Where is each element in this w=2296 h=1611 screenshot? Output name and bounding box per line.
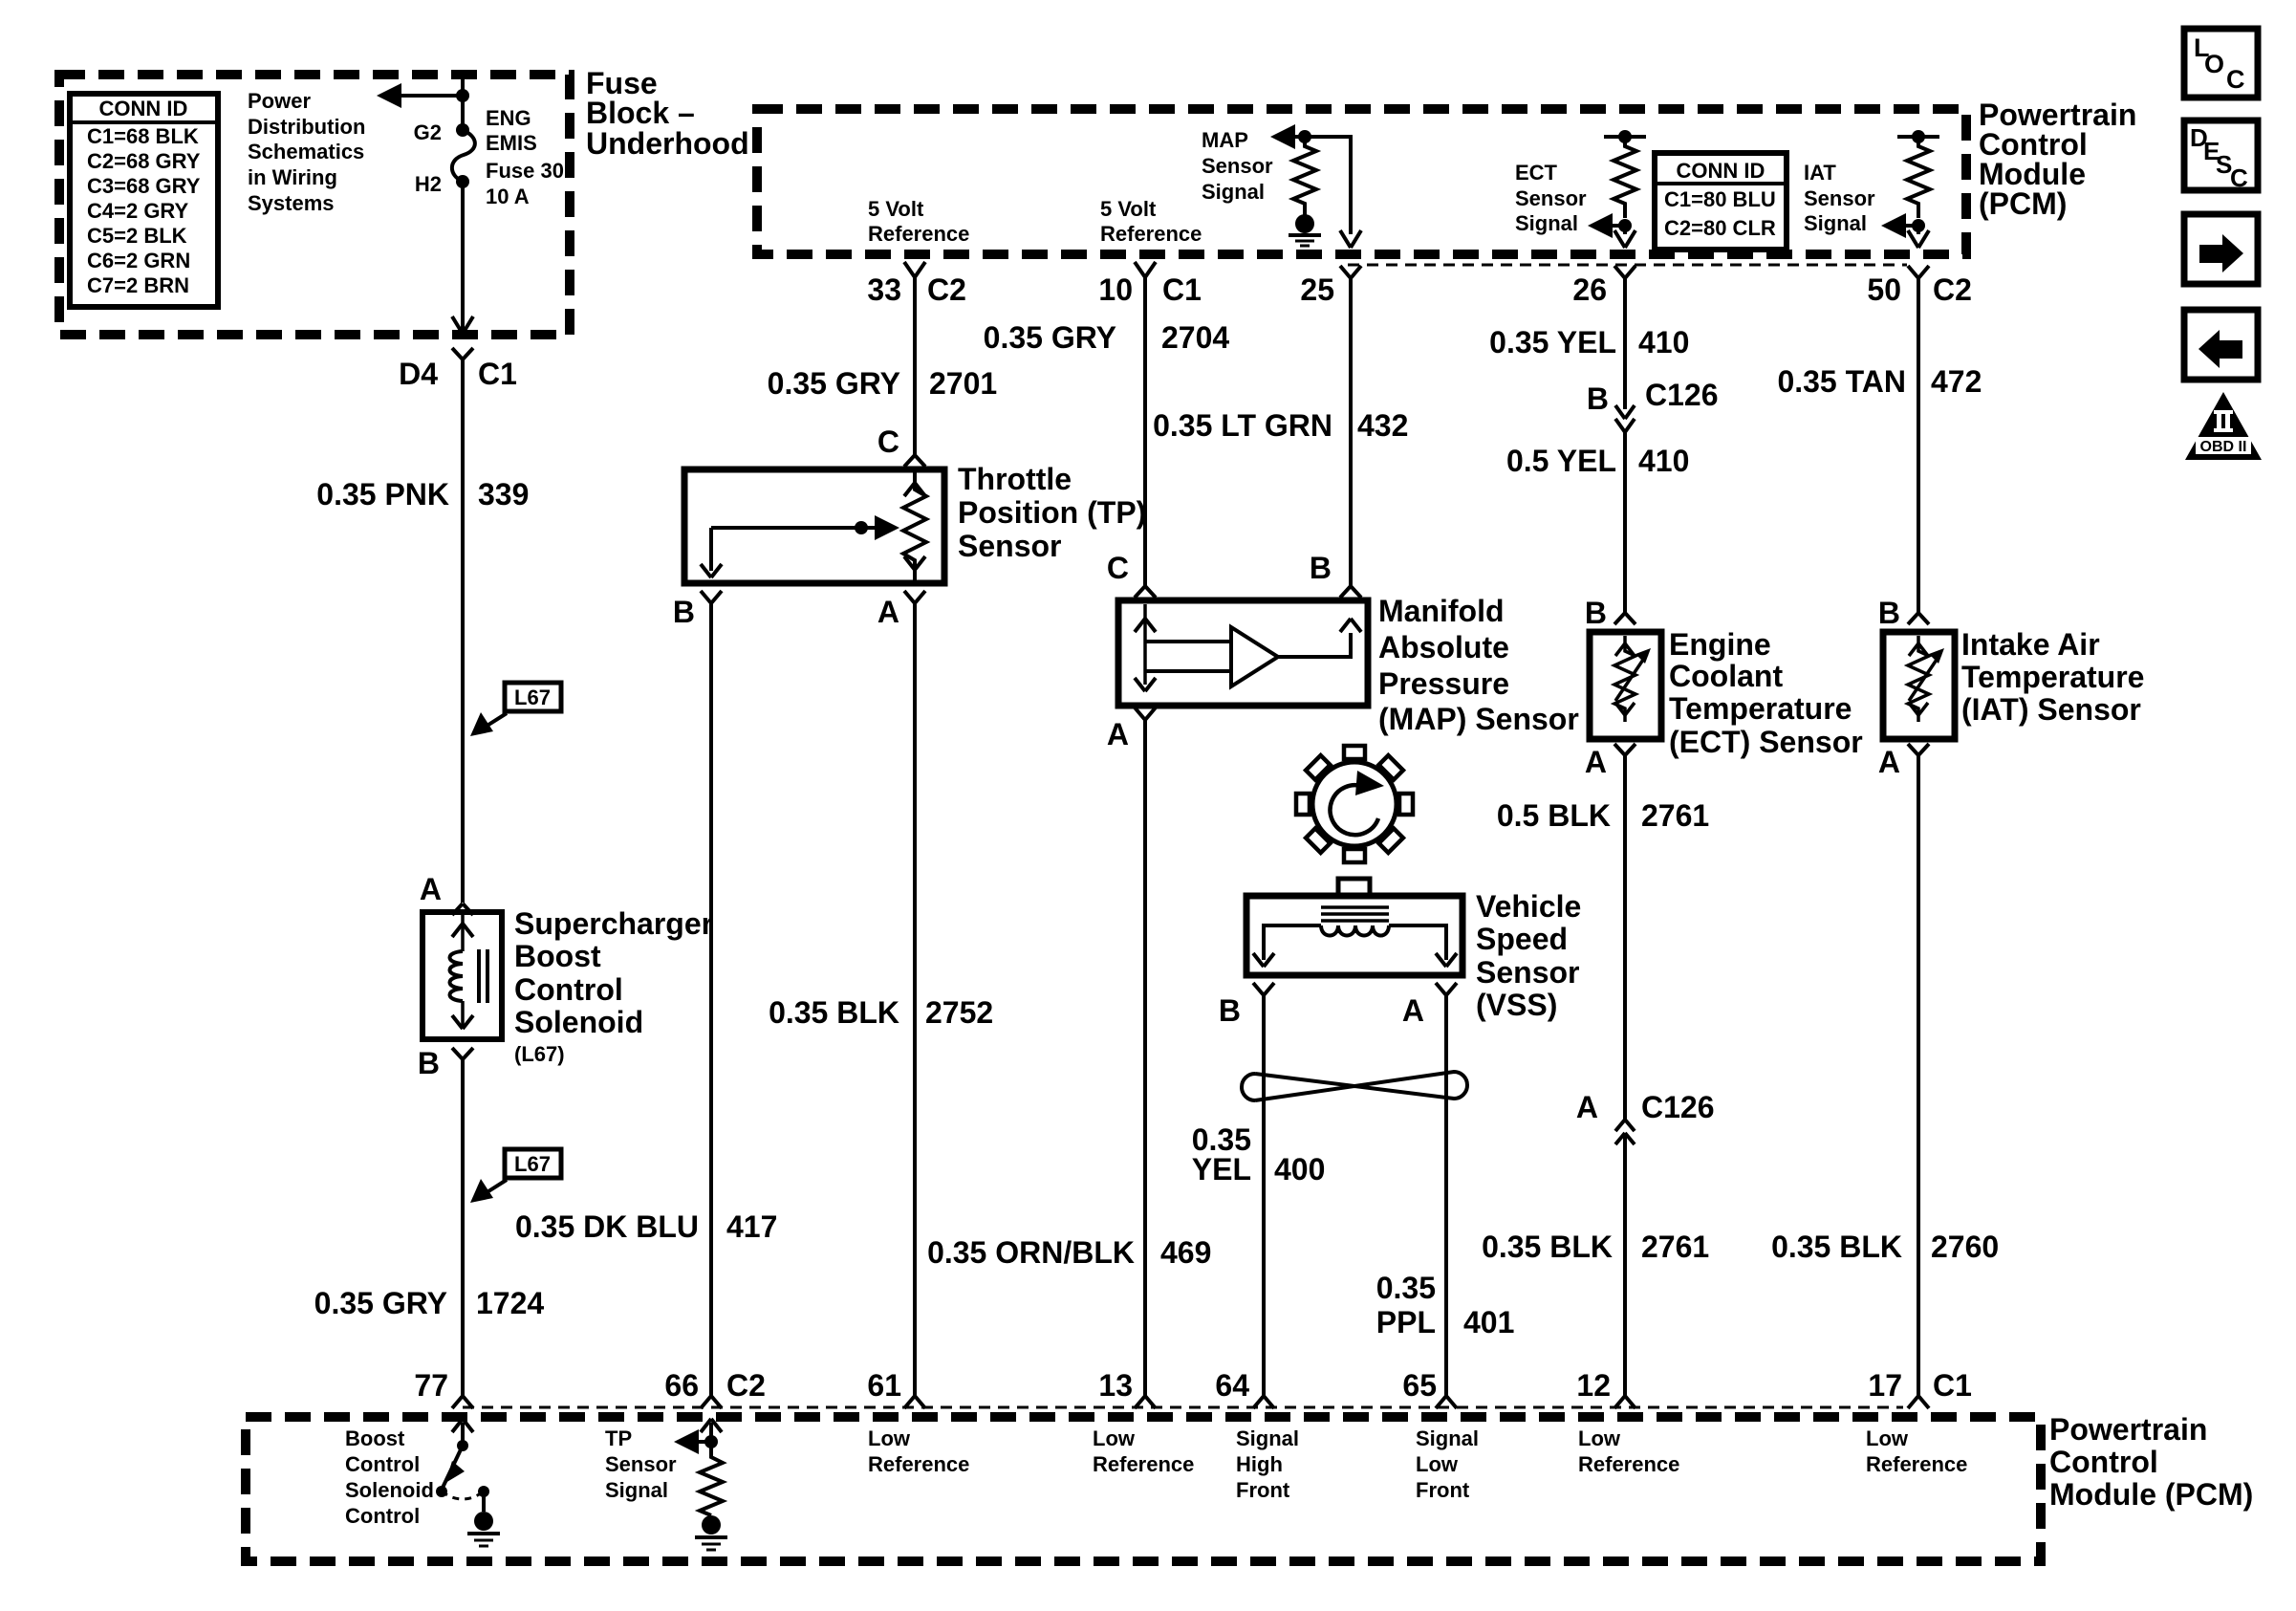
label: TP Sensor Signal: [605, 1426, 677, 1502]
svg-text:0.35 BLK: 0.35 BLK: [1771, 1230, 1902, 1264]
PCM CONN ID table: [1655, 153, 1787, 250]
svg-text:PPL: PPL: [1376, 1305, 1436, 1339]
label: 0.35 GRY 2701: [768, 366, 998, 401]
svg-text:2704: 2704: [1161, 320, 1229, 355]
label: Supercharger Boost Control Solenoid (L67): [514, 906, 713, 1066]
net: IAT sensor signal label: [1804, 161, 1875, 235]
svg-text:Sensor: Sensor: [1804, 186, 1875, 210]
label: Powertrain Control Module (PCM) bottom right: [2049, 1412, 2253, 1512]
boost control solenoid driver switch: [436, 1419, 489, 1512]
svg-text:Position (TP): Position (TP): [958, 495, 1146, 530]
wire: TP B to PCM 66 (0.35 DK BLU 417): [709, 603, 713, 1396]
svg-text:66: 66: [664, 1368, 699, 1403]
svg-text:C: C: [877, 425, 899, 459]
icon: OBD II triangle: [2185, 392, 2262, 460]
ground: boost control driver: [467, 1512, 500, 1546]
svg-text:33: 33: [867, 272, 901, 307]
svg-text:0.35 ORN/BLK: 0.35 ORN/BLK: [927, 1235, 1135, 1270]
label: 0.35 PNK 339: [316, 477, 529, 512]
svg-text:17: 17: [1868, 1368, 1902, 1403]
wire: ECT A to C126 pin A (0.5 BLK 2761): [1623, 755, 1627, 1120]
svg-text:Coolant: Coolant: [1669, 659, 1783, 693]
fuse block CONN ID table: [70, 94, 218, 307]
resistor: ECT internal pull-up: [1614, 137, 1636, 218]
wire: VSS B to PCM 64 (0.35 YEL 400): [1262, 995, 1266, 1396]
svg-text:Solenoid: Solenoid: [514, 1005, 643, 1039]
svg-text:Control: Control: [345, 1504, 420, 1528]
svg-text:B: B: [1310, 551, 1332, 585]
svg-text:A: A: [1402, 993, 1424, 1028]
svg-text:C6=2 GRN: C6=2 GRN: [87, 249, 190, 272]
svg-text:C7=2 BRN: C7=2 BRN: [87, 273, 189, 297]
svg-text:CONN ID: CONN ID: [1677, 159, 1765, 183]
svg-text:(IAT) Sensor: (IAT) Sensor: [1961, 692, 2141, 727]
wire: 33 to TP sensor pin C (0.35 GRY 2701): [913, 277, 917, 455]
node: ECT signal junction: [1618, 219, 1632, 232]
svg-text:OBD II: OBD II: [2200, 439, 2247, 455]
svg-text:C3=68 GRY: C3=68 GRY: [87, 174, 201, 198]
label: 0.35 YEL 400: [1192, 1122, 1326, 1186]
wire: 10 to MAP sensor pin C (0.35 GRY 2704): [1143, 277, 1147, 586]
svg-text:Reference: Reference: [868, 222, 969, 246]
svg-text:C2=80 CLR: C2=80 CLR: [1664, 216, 1776, 240]
pin C TP sensor chevron: [904, 455, 925, 467]
pin A MAP sensor chevron: [1135, 708, 1156, 720]
svg-text:0.35 BLK: 0.35 BLK: [1482, 1230, 1613, 1264]
pin 65 connector chevron: [1436, 1396, 1457, 1408]
net: low reference (13): [1093, 1426, 1194, 1476]
pin C MAP sensor chevron: [1135, 586, 1156, 598]
svg-text:A: A: [1576, 1090, 1598, 1124]
svg-text:D4: D4: [399, 357, 438, 391]
label: 0.35 YEL 410: [1489, 325, 1689, 359]
svg-text:Block –: Block –: [586, 96, 695, 130]
net: signal low front (65): [1416, 1426, 1479, 1502]
svg-text:0.35 BLK: 0.35 BLK: [769, 995, 899, 1030]
svg-text:B: B: [1219, 993, 1241, 1028]
label: 0.35 ORN/BLK 469: [927, 1235, 1211, 1270]
svg-text:MAP: MAP: [1202, 128, 1248, 152]
pin B VSS chevron: [1253, 983, 1274, 995]
twisted pair symbol: [1242, 1072, 1467, 1100]
svg-text:2761: 2761: [1641, 798, 1709, 833]
svg-text:Reference: Reference: [868, 1452, 969, 1476]
powertrain control module bottom dashed box: [246, 1417, 2041, 1561]
svg-text:Low: Low: [1416, 1452, 1459, 1476]
svg-text:61: 61: [867, 1368, 901, 1403]
node: MAP pull-down junction: [1298, 130, 1311, 143]
pin 17 connector chevron: [1908, 1396, 1929, 1408]
thermistor: ECT sensor element: [1614, 636, 1651, 722]
wire: MAP A to PCM 13 (0.35 ORN/BLK 469): [1143, 720, 1147, 1396]
svg-text:12: 12: [1576, 1368, 1611, 1403]
svg-text:Speed: Speed: [1476, 922, 1568, 956]
throttle position sensor box: [684, 469, 944, 583]
svg-text:50: 50: [1867, 272, 1901, 307]
svg-text:1724: 1724: [476, 1286, 544, 1320]
svg-text:0.35 GRY: 0.35 GRY: [768, 366, 900, 401]
pin 33 connector chevron: [904, 262, 925, 277]
svg-text:C1=68 BLK: C1=68 BLK: [87, 124, 199, 148]
svg-text:Reference: Reference: [1100, 222, 1202, 246]
svg-text:ENG: ENG: [486, 106, 531, 130]
wire: 0.35 GRY 1724 segment: [461, 1059, 465, 1396]
fuse F30 ENG EMIS element: [452, 130, 475, 182]
svg-text:Sensor: Sensor: [958, 529, 1061, 563]
svg-text:Temperature: Temperature: [1669, 691, 1852, 726]
svg-text:Low: Low: [1866, 1426, 1909, 1450]
label: 0.35 PPL 401: [1376, 1271, 1515, 1339]
wire: MAP signal internal with left arrow: [1270, 124, 1361, 248]
svg-text:469: 469: [1160, 1235, 1211, 1270]
svg-text:400: 400: [1274, 1152, 1325, 1186]
powertrain control module top dashed box: [757, 109, 1966, 254]
svg-text:Absolute: Absolute: [1378, 630, 1509, 664]
pin A IAT sensor chevron: [1908, 744, 1929, 755]
wire: 50 to IAT pin B (0.35 TAN 472): [1917, 278, 1920, 613]
svg-text:Reference: Reference: [1866, 1452, 1967, 1476]
tag L67 upper with arrow: [470, 683, 561, 736]
svg-text:O: O: [2204, 50, 2224, 78]
pin 61 connector chevron: [904, 1396, 925, 1408]
svg-text:A: A: [1878, 745, 1900, 779]
svg-text:A: A: [1107, 717, 1129, 751]
svg-text:(MAP) Sensor: (MAP) Sensor: [1378, 702, 1579, 736]
icon: DESC box: [2184, 120, 2258, 192]
svg-text:C1=80 BLU: C1=80 BLU: [1664, 187, 1776, 211]
svg-text:Power: Power: [248, 89, 311, 113]
svg-text:0.5 BLK: 0.5 BLK: [1497, 798, 1611, 833]
svg-text:C: C: [2230, 163, 2248, 192]
wire: 25 to MAP sensor pin B (0.35 LT GRN 432): [1349, 278, 1353, 586]
svg-text:C4=2 GRY: C4=2 GRY: [87, 199, 189, 223]
svg-text:5 Volt: 5 Volt: [1100, 197, 1157, 221]
svg-text:C5=2 BLK: C5=2 BLK: [87, 224, 187, 248]
ground: MAP internal: [1289, 212, 1321, 246]
svg-text:(ECT) Sensor: (ECT) Sensor: [1669, 725, 1863, 759]
svg-text:C1: C1: [1162, 272, 1202, 307]
svg-text:Reference: Reference: [1093, 1452, 1194, 1476]
svg-text:0.35 DK BLU: 0.35 DK BLU: [515, 1209, 699, 1244]
svg-text:A: A: [420, 872, 442, 906]
svg-text:C126: C126: [1645, 378, 1719, 412]
svg-text:L67: L67: [514, 686, 551, 709]
solenoid coil element: [450, 912, 488, 1029]
VSS pickup coil winding: [1321, 925, 1389, 936]
net: low reference (17): [1866, 1426, 1967, 1476]
svg-text:10: 10: [1098, 272, 1133, 307]
VSS mounting tab: [1338, 879, 1370, 896]
wire: arrow to power distribution schematics: [377, 83, 463, 108]
resistor: MAP internal: [1293, 137, 1316, 212]
svg-text:417: 417: [726, 1209, 777, 1244]
svg-text:C: C: [1107, 551, 1129, 585]
svg-text:B: B: [1878, 596, 1900, 630]
pin B TP sensor chevron: [701, 591, 722, 603]
net: signal high front (64): [1236, 1426, 1299, 1502]
label: Manifold Absolute Pressure (MAP) Sensor: [1378, 594, 1579, 736]
svg-text:C2: C2: [927, 272, 966, 307]
svg-text:410: 410: [1638, 325, 1689, 359]
svg-text:Sensor: Sensor: [1476, 955, 1579, 990]
svg-text:0.35: 0.35: [1376, 1271, 1436, 1305]
svg-text:0.35 TAN: 0.35 TAN: [1777, 364, 1906, 399]
svg-text:Control: Control: [2049, 1445, 2158, 1479]
svg-text:TP: TP: [605, 1426, 632, 1450]
net: 5 volt reference (TP): [868, 197, 969, 246]
svg-text:in Wiring: in Wiring: [248, 165, 337, 189]
TP sensor signal input with left arrow: [674, 1419, 722, 1454]
fuse F30 ENG EMIS terminal H2: [456, 175, 469, 188]
pin B IAT sensor chevron: [1908, 613, 1929, 624]
connector C126 lower halves: [1615, 1120, 1635, 1144]
svg-text:Manifold: Manifold: [1378, 594, 1505, 628]
svg-text:Sensor: Sensor: [605, 1452, 677, 1476]
svg-text:432: 432: [1357, 408, 1408, 443]
svg-text:B: B: [1585, 596, 1607, 630]
wire: C126 to ECT pin B (0.5 YEL 410): [1623, 432, 1627, 613]
pin 13 connector chevron: [1135, 1396, 1156, 1408]
svg-text:Sensor: Sensor: [1202, 154, 1273, 178]
svg-text:L67: L67: [514, 1152, 551, 1176]
svg-text:Front: Front: [1236, 1478, 1290, 1502]
svg-text:25: 25: [1300, 272, 1334, 307]
node: power distribution tap junction: [456, 89, 469, 102]
fuse F30 ENG EMIS terminal G2: [456, 123, 469, 137]
node: IAT signal junction: [1912, 219, 1925, 232]
svg-text:Distribution: Distribution: [248, 115, 365, 139]
svg-text:B: B: [673, 595, 695, 629]
svg-text:64: 64: [1215, 1368, 1249, 1403]
svg-text:H2: H2: [415, 172, 442, 196]
wire: 0.35 PNK 339 segment: [461, 359, 465, 903]
svg-text:Systems: Systems: [248, 191, 335, 215]
tag L67 lower with arrow: [470, 1149, 561, 1203]
pin B ECT sensor chevron: [1614, 613, 1635, 624]
label: Fuse Block - Underhood: [586, 66, 749, 161]
label: Vehicle Speed Sensor (VSS): [1476, 889, 1581, 1022]
label: Boost Control Solenoid Control: [345, 1426, 434, 1528]
svg-text:C: C: [2226, 65, 2245, 94]
pin 12 connector chevron: [1614, 1396, 1635, 1408]
svg-text:77: 77: [414, 1368, 448, 1403]
svg-text:Underhood: Underhood: [586, 126, 749, 161]
ground: TP signal internal: [695, 1515, 727, 1550]
svg-text:26: 26: [1572, 272, 1607, 307]
svg-text:Low: Low: [868, 1426, 911, 1450]
pin A TP sensor chevron: [904, 591, 925, 603]
label: 0.35 BLK 2761: [1482, 1230, 1709, 1264]
svg-text:Control: Control: [345, 1452, 420, 1476]
VSS reluctor gear symbol: [1296, 746, 1413, 862]
svg-text:Throttle: Throttle: [958, 462, 1072, 496]
svg-text:Solenoid: Solenoid: [345, 1478, 434, 1502]
svg-text:0.35 GRY: 0.35 GRY: [314, 1286, 447, 1320]
wire: 26 to C126 pin B (0.35 YEL 410): [1623, 278, 1627, 409]
svg-text:5 Volt: 5 Volt: [868, 197, 924, 221]
icon: forward arrow box: [2184, 214, 2258, 284]
svg-text:Signal: Signal: [1515, 211, 1578, 235]
pin 25 connector chevron: [1340, 266, 1361, 278]
svg-text:339: 339: [478, 477, 529, 512]
svg-text:Signal: Signal: [1236, 1426, 1299, 1450]
wire: TP A to PCM 61 (0.35 BLK 2752): [913, 603, 917, 1396]
wire: PCM bottom harness thin dashed edge: [463, 1406, 1903, 1409]
label: Intake Air Temperature (IAT) Sensor: [1961, 627, 2144, 727]
wire: VSS A to PCM 65 (0.35 PPL 401): [1444, 995, 1448, 1396]
svg-text:2752: 2752: [925, 995, 993, 1030]
svg-text:A: A: [877, 595, 899, 629]
svg-text:C2: C2: [726, 1368, 766, 1403]
wire: IAT internal pull-up rail stub: [1897, 135, 1939, 139]
svg-text:(L67): (L67): [514, 1042, 565, 1066]
svg-text:B: B: [1587, 381, 1609, 416]
net: low reference (12): [1578, 1426, 1679, 1476]
label: 0.35 BLK 2752: [769, 995, 993, 1030]
svg-text:Signal: Signal: [1804, 211, 1867, 235]
svg-text:Reference: Reference: [1578, 1452, 1679, 1476]
svg-text:0.5 YEL: 0.5 YEL: [1506, 444, 1616, 478]
resistor: TP signal internal: [700, 1450, 723, 1515]
svg-text:C1: C1: [1933, 1368, 1972, 1403]
pin 50 connector chevron: [1908, 266, 1929, 278]
svg-text:65: 65: [1402, 1368, 1437, 1403]
engine coolant temperature sensor box: [1590, 632, 1661, 739]
vehicle speed sensor box: [1246, 896, 1462, 975]
svg-text:Boost: Boost: [514, 939, 601, 973]
svg-text:472: 472: [1931, 364, 1982, 399]
wire: fuse feed from top edge: [461, 76, 465, 130]
svg-text:Supercharger: Supercharger: [514, 906, 713, 941]
icon: LOC box: [2184, 29, 2258, 98]
svg-text:0.35 LT GRN: 0.35 LT GRN: [1153, 408, 1332, 443]
label: 0.5 YEL 410: [1506, 444, 1689, 478]
svg-text:0.35 GRY: 0.35 GRY: [984, 320, 1116, 355]
svg-text:A: A: [1585, 745, 1607, 779]
pin 26 connector chevron: [1614, 266, 1635, 278]
svg-text:Boost: Boost: [345, 1426, 405, 1450]
label: 0.35 LT GRN 432: [1153, 408, 1408, 443]
svg-text:Control: Control: [514, 972, 623, 1007]
svg-text:Powertrain: Powertrain: [2049, 1412, 2207, 1447]
svg-text:Front: Front: [1416, 1478, 1470, 1502]
svg-text:0.35 YEL: 0.35 YEL: [1489, 325, 1616, 359]
svg-text:High: High: [1236, 1452, 1283, 1476]
net: low reference (61): [868, 1426, 969, 1476]
label: 0.35 GRY 1724: [314, 1286, 545, 1320]
label: 0.35 BLK 2760: [1771, 1230, 1999, 1264]
svg-text:2760: 2760: [1931, 1230, 1999, 1264]
net: 5 volt reference (MAP): [1100, 197, 1202, 246]
svg-text:Signal: Signal: [1416, 1426, 1479, 1450]
svg-text:(VSS): (VSS): [1476, 988, 1557, 1022]
svg-text:Vehicle: Vehicle: [1476, 889, 1581, 924]
pin 66 connector chevron: [701, 1396, 722, 1408]
VSS coil leads with arrows: [1253, 925, 1457, 967]
svg-text:C2=68 GRY: C2=68 GRY: [87, 149, 201, 173]
wire: IAT A to PCM 17 (0.35 BLK 2760): [1917, 755, 1920, 1396]
svg-text:2701: 2701: [929, 366, 997, 401]
pin 64 connector chevron: [1253, 1396, 1274, 1408]
svg-text:B: B: [418, 1046, 440, 1080]
label: 0.35 DK BLU 417: [515, 1209, 777, 1244]
svg-text:IAT: IAT: [1804, 161, 1836, 185]
resistor: TP sensor element: [903, 472, 926, 580]
power distribution note: [248, 89, 365, 215]
svg-text:13: 13: [1098, 1368, 1133, 1403]
svg-text:EMIS: EMIS: [486, 131, 537, 155]
supercharger boost control solenoid box: [422, 912, 502, 1039]
wire: ECT internal pull-up rail stub: [1604, 135, 1646, 139]
VSS pickup coil core: [1321, 907, 1389, 921]
wire: IAT signal left arrow: [1881, 213, 1929, 248]
svg-text:Intake Air: Intake Air: [1961, 627, 2100, 662]
wire: PCM C2 harness thin dashed edge: [1348, 264, 1907, 267]
label: 0.35 GRY 2704: [984, 320, 1230, 355]
svg-text:Low: Low: [1093, 1426, 1136, 1450]
svg-text:C1: C1: [478, 357, 517, 391]
label: ENG EMIS Fuse 30 10 A: [486, 106, 564, 208]
pin 10 connector chevron: [1135, 262, 1156, 277]
node: ECT rail junction: [1618, 130, 1632, 143]
svg-text:Engine: Engine: [1669, 627, 1771, 662]
MAP sensor internal amplifier: [1135, 604, 1361, 691]
svg-text:410: 410: [1638, 444, 1689, 478]
svg-text:Sensor: Sensor: [1515, 186, 1587, 210]
label: 0.5 BLK 2761: [1497, 798, 1709, 833]
pin A VSS chevron: [1436, 983, 1457, 995]
svg-text:Low: Low: [1578, 1426, 1621, 1450]
svg-text:Fuse 30: Fuse 30: [486, 159, 564, 183]
svg-text:ECT: ECT: [1515, 161, 1558, 185]
svg-text:401: 401: [1463, 1305, 1514, 1339]
svg-text:C2: C2: [1933, 272, 1972, 307]
intake air temperature sensor box: [1883, 632, 1955, 739]
icon: back arrow box: [2184, 310, 2258, 380]
svg-text:C126: C126: [1641, 1090, 1715, 1124]
label: Engine Coolant Temperature (ECT) Sensor: [1669, 627, 1863, 759]
svg-text:YEL: YEL: [1192, 1152, 1251, 1186]
svg-text:Temperature: Temperature: [1961, 660, 2144, 694]
svg-text:Schematics: Schematics: [248, 140, 364, 163]
svg-text:Pressure: Pressure: [1378, 666, 1509, 701]
manifold absolute pressure sensor box: [1118, 600, 1368, 706]
svg-text:2761: 2761: [1641, 1230, 1709, 1264]
label: 0.35 TAN 472: [1777, 364, 1982, 399]
label: Powertrain Control Module (PCM) top right: [1979, 98, 2136, 221]
svg-text:0.35 PNK: 0.35 PNK: [316, 477, 449, 512]
TP sensor wiper arrow: [701, 515, 899, 577]
thermistor: IAT sensor element: [1908, 636, 1944, 722]
svg-text:10 A: 10 A: [486, 185, 530, 208]
svg-text:G2: G2: [414, 120, 442, 144]
svg-text:CONN ID: CONN ID: [99, 97, 188, 120]
connector C1 pin D4 chevron: [452, 348, 473, 359]
pin A ECT sensor chevron: [1614, 744, 1635, 755]
fuse block underhood dashed box: [59, 75, 570, 335]
svg-text:Signal: Signal: [1202, 180, 1265, 204]
wire: C126 A to PCM 12 (0.35 BLK 2761): [1623, 1133, 1627, 1396]
net: ECT sensor signal label: [1515, 161, 1587, 235]
svg-text:Signal: Signal: [605, 1478, 668, 1502]
label: Throttle Position (TP) Sensor: [958, 462, 1146, 563]
wire: ECT signal left arrow: [1588, 213, 1635, 248]
pin B MAP sensor chevron: [1340, 586, 1361, 598]
net: MAP sensor signal label: [1202, 128, 1273, 204]
svg-text:(PCM): (PCM): [1979, 186, 2067, 221]
wire: fuse output down to box edge with arrow: [452, 182, 473, 334]
connector C126 upper halves: [1615, 405, 1635, 432]
